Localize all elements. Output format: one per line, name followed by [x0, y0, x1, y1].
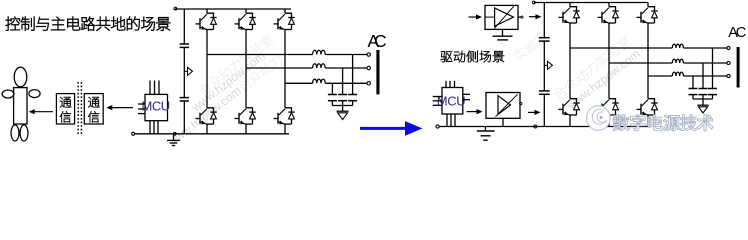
big blue arrow between scenarios [360, 127, 408, 130]
watermark right row1 url [563, 47, 642, 113]
ground symbol driver A [502, 29, 504, 36]
gate driver A input stub [485, 16, 495, 18]
inductor L5 [672, 59, 683, 63]
MCU U2 bottom pins [446, 114, 448, 127]
MCU top pins [149, 81, 151, 95]
capacitor C6 (upper DC-link right) [539, 37, 550, 39]
common ground bus wire (shared ground) [135, 133, 289, 135]
transistor Q2 (top IGBT leg 2) with diode [245, 9, 247, 13]
ground symbol of right filter bank [702, 99, 704, 105]
DC rail right bridge [543, 3, 545, 38]
watermark right row1 cjk [552, 34, 633, 101]
terminal node phase B [367, 66, 370, 69]
watermark left row1 url [188, 49, 267, 115]
person right arm [29, 90, 40, 98]
node terminal circle left of ground bus [132, 132, 135, 135]
filter capacitor C8 drop wire [692, 76, 694, 88]
ground symbol of filter bank [342, 106, 344, 112]
svg-text:AC: AC [368, 31, 387, 51]
person left arm [2, 90, 14, 98]
inductor L2 [313, 64, 326, 68]
terminal node phase C right [727, 74, 730, 77]
transistor Q7 (top IGBT right leg 1) with diode [569, 3, 571, 7]
comm box 2 (通信) [84, 94, 103, 124]
person right leg [20, 125, 28, 141]
cap bank common bus right [693, 98, 713, 100]
capacitor C2 (lower DC-link) [180, 97, 189, 99]
ground symbol under control bus [484, 127, 486, 131]
logo text 数字电源技术 (white watermark) [613, 115, 630, 131]
terminal node phase A right [727, 46, 730, 49]
inductor L3 [313, 79, 326, 83]
MCU U2 right pins [463, 93, 470, 95]
AC grid bar left [376, 50, 379, 94]
arrow MCU to driver B [467, 111, 479, 113]
comm box 1 (通信) [56, 94, 74, 124]
arrow driver B to bridge [528, 111, 536, 113]
gate driver B amp triangle [498, 96, 511, 115]
node terminal top-left right bridge [532, 1, 535, 4]
arrow driver A to bridge [529, 16, 537, 18]
ground symbol under MCU bus [173, 134, 175, 140]
MCU U2 left pins [433, 96, 442, 98]
title: 控制与主电路共地的场景 [6, 17, 20, 31]
filter capacitor C4 [338, 94, 347, 96]
transistor Q1 (top IGBT leg 1) with diode [206, 9, 208, 13]
gate driver A box [485, 5, 518, 29]
terminal node phase A [367, 53, 370, 56]
filter capacitor C5 drop wire [352, 55, 354, 95]
operator person figure head [14, 67, 27, 87]
comm box 1 label 通 [60, 97, 71, 107]
ground stub driver B [502, 118, 504, 126]
inductor L4 [672, 44, 683, 48]
transistor Q9 (top IGBT right leg 3) with diode [647, 3, 649, 7]
terminal node phase C [367, 82, 370, 85]
transistor Q4 (bottom IGBT leg 1) with diode [207, 108, 214, 112]
wire leg 2 midsection [245, 30, 247, 108]
watermark right row2 cjk [512, 30, 549, 62]
isolation dotted barrier line A [77, 82, 79, 136]
AC grid bar right [737, 47, 740, 88]
svg-text:AC: AC [728, 25, 746, 41]
arrow MCU to comm box 2 [111, 107, 133, 109]
control ground bus right [439, 126, 648, 128]
svg-text:MCU: MCU [142, 99, 171, 114]
filter capacitor C3 [328, 94, 337, 96]
transistor Q12 (bottom IGBT right leg 3) with diode [648, 99, 655, 103]
cap bank stubs to bus [331, 101, 333, 106]
filter capacitor C9 [699, 88, 708, 90]
transistor Q3 (top IGBT leg 3) with diode [284, 9, 286, 13]
logo swirl [592, 109, 606, 124]
filter capacitor C5 [348, 94, 357, 96]
MCU left pins [138, 103, 145, 105]
logo inner dot [600, 116, 603, 119]
phase A wire [207, 54, 313, 56]
gate driver A amp triangle [495, 8, 514, 26]
DC+ top rail wire [175, 8, 291, 10]
gate driver A output stub [518, 16, 521, 18]
gate driver B output node [520, 102, 522, 104]
inductor L6 [672, 72, 683, 76]
phase B wire [246, 67, 313, 69]
DC+ top rail right [534, 2, 648, 4]
gate driver B box [486, 93, 520, 119]
capacitor C1 (upper DC-link) [180, 43, 189, 45]
arrow comm1 to person [33, 111, 53, 113]
node dot bottom-left rail [173, 132, 176, 135]
comm box 1 label 信 [60, 111, 71, 122]
current flow marker on right DC rail [544, 64, 547, 66]
gate driver A isolation diagonal [494, 6, 514, 28]
wire right leg 2 midsection [608, 23, 610, 99]
filter capacitor C10 [708, 88, 717, 90]
title: 驱动侧场景 [441, 51, 453, 62]
transistor Q6 (bottom IGBT leg 3) with diode [285, 108, 292, 112]
logo circle icon (white knockout) [587, 106, 611, 131]
phase C wire [285, 82, 313, 84]
MCU U1 box [145, 94, 168, 120]
cap bank common bus [332, 105, 352, 107]
current flow marker on DC rail [184, 70, 187, 72]
person body [14, 88, 27, 124]
cap bank stubs to bus right [692, 95, 694, 99]
filter capacitor C3 drop wire [331, 83, 333, 94]
MCU U2 box [442, 88, 463, 115]
node terminal top-left [174, 7, 177, 10]
arrow into gate driver A [469, 16, 478, 18]
inductor L1 [313, 50, 326, 54]
phase A wire right [570, 47, 672, 49]
MCU U2 top pins [445, 81, 447, 88]
DC bus left rail wire [183, 9, 185, 44]
terminal node phase B right [727, 61, 730, 64]
wire right leg 1 midsection [569, 23, 571, 99]
gate driver B isolation diagonal [496, 94, 518, 116]
watermark left row1 cjk [197, 33, 275, 97]
filter capacitor C10 drop wire [712, 48, 714, 88]
watermark left row2 cjk [237, 53, 284, 93]
filter capacitor C8 [689, 88, 698, 90]
comm box 2 label 通 [88, 97, 99, 107]
wire leg 1 midsection [206, 30, 208, 108]
wire right leg 3 midsection [647, 23, 649, 99]
node dot mid ground bus [534, 125, 537, 128]
transistor Q8 (top IGBT right leg 2) with diode [608, 3, 610, 7]
filter capacitor C9 drop wire [702, 63, 704, 88]
phase C wire right [648, 75, 672, 77]
transistor Q11 (bottom IGBT right leg 2) with diode [609, 99, 616, 103]
person left leg [11, 125, 19, 141]
transistor Q5 (bottom IGBT leg 2) with diode [246, 108, 253, 112]
watermark left row2 url [164, 84, 243, 150]
transistor Q10 (bottom IGBT right leg 1) with diode [570, 99, 577, 103]
filter capacitor C4 drop wire [342, 68, 344, 94]
MCU bottom pins [149, 121, 151, 134]
isolation dotted barrier line B [80, 82, 82, 136]
wire leg 3 midsection [284, 30, 286, 108]
phase B wire right [609, 62, 672, 64]
node terminal left end of ground bus [436, 125, 439, 128]
comm box 2 label 信 [88, 111, 99, 122]
capacitor C7 (lower DC-link right) [539, 90, 550, 92]
